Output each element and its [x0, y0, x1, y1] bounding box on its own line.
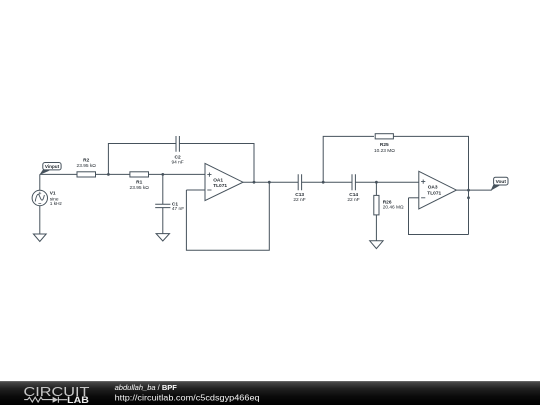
svg-text:23.95 kΩ: 23.95 kΩ: [130, 185, 150, 191]
node OA1 output / C2: [253, 181, 256, 184]
svg-text:47 nF: 47 nF: [172, 206, 184, 212]
capacitor C1: [155, 204, 170, 207]
Vinput flag tail: [39, 169, 49, 175]
wire R25 branch: [323, 136, 374, 182]
wire R1 to OA1 + input: [149, 173, 206, 175]
resistor R26: [374, 195, 379, 215]
svg-text:22 nF: 22 nF: [347, 197, 359, 203]
svg-text:1 kHz: 1 kHz: [50, 201, 63, 207]
Vinput flag: [43, 163, 61, 170]
wire OA1 feedback loop: [186, 182, 269, 250]
svg-text:LAB: LAB: [67, 395, 89, 405]
wire V1 bottom to ground: [39, 206, 41, 234]
wire R2 to R1: [96, 173, 130, 175]
svg-text:10.23 MΩ: 10.23 MΩ: [374, 148, 395, 154]
node R1/C1 junction: [161, 173, 164, 176]
svg-text:http://circuitlab.com/c5cdsgyp: http://circuitlab.com/c5cdsgyp466eq: [115, 394, 260, 403]
wire C1 to ground: [162, 208, 164, 234]
ground (C1): [156, 234, 169, 241]
wire C1 branch down: [162, 174, 164, 204]
svg-text:Vinput: Vinput: [45, 164, 60, 169]
wire main input: [40, 173, 77, 175]
svg-text:23.95 kΩ: 23.95 kΩ: [77, 163, 97, 169]
wire V1 top to main wire: [39, 174, 41, 190]
op-amp OA3: [419, 171, 457, 209]
svg-text:22 nF: 22 nF: [293, 197, 305, 203]
op-amp OA1: [205, 163, 243, 200]
node OA1 output / feedback: [268, 181, 271, 184]
svg-text:TL071: TL071: [213, 183, 227, 189]
svg-text:OA3: OA3: [428, 185, 438, 191]
node OA3 feedback junction: [467, 196, 470, 199]
wire C2 branch up: [108, 144, 176, 175]
svg-text:94 nF: 94 nF: [171, 160, 183, 166]
footer bar: [0, 381, 540, 405]
wire OA3 inverting stub: [409, 197, 419, 199]
wire R26 to ground: [375, 215, 377, 241]
wire R25 right, long vertical: [394, 136, 469, 234]
CircuitLab logo resistor zigzag: [24, 397, 52, 402]
svg-text:R25: R25: [380, 142, 389, 148]
svg-text:abdullah_ba / BPF: abdullah_ba / BPF: [115, 385, 178, 392]
svg-text:TL071: TL071: [427, 190, 441, 196]
wire OA1 output: [243, 181, 298, 183]
wire R26 branch: [375, 182, 377, 195]
capacitor C13: [298, 174, 301, 190]
OA3 minus marker: [421, 197, 425, 199]
ground (R26): [370, 241, 383, 249]
OA3 plus marker: [421, 180, 425, 184]
node C13/R25 junction: [322, 181, 325, 184]
wire OA1 inverting stub: [186, 189, 205, 191]
resistor R25: [375, 134, 393, 139]
wire C13 to C14: [302, 181, 352, 183]
svg-text:V1: V1: [50, 190, 56, 196]
node C14/R26 junction: [375, 181, 378, 184]
resistor R1: [130, 172, 149, 177]
wire OA3 output: [456, 189, 491, 191]
svg-text:R2: R2: [83, 157, 89, 163]
Vout flag: [494, 177, 508, 185]
voltage source V1: [32, 190, 47, 205]
wire C14 to OA3 + input: [355, 181, 418, 183]
wire OA3 feedback loop: [409, 198, 469, 235]
OA1 minus marker: [207, 189, 211, 191]
svg-text:Vout: Vout: [496, 179, 507, 185]
Vout flag tail: [491, 184, 500, 191]
resistor R2: [77, 172, 96, 177]
node R2/C2 junction: [107, 173, 110, 176]
svg-text:20.46 MΩ: 20.46 MΩ: [383, 205, 404, 211]
ground (V1): [33, 234, 46, 242]
wire C2 right to OA1 output node: [179, 144, 254, 183]
capacitor C14: [352, 174, 355, 190]
CircuitLab logo diode: [53, 397, 59, 403]
V1 sine glyph: [35, 194, 44, 201]
svg-text:OA1: OA1: [213, 177, 223, 183]
node OA3 output junction: [467, 189, 470, 192]
capacitor C2: [176, 136, 179, 152]
OA1 plus marker: [207, 173, 211, 177]
svg-text:R1: R1: [136, 180, 142, 186]
